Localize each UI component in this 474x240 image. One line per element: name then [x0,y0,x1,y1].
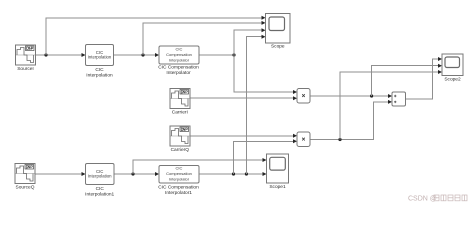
wire SourceQ to CIC Interpolation1 [35,173,82,175]
block Product (multiplier, I path) [297,89,310,104]
svg-text:CIC Compensation: CIC Compensation [158,184,199,190]
svg-text:CarrierI: CarrierI [172,110,188,116]
svg-text:CIC: CIC [176,165,183,170]
wire CIC Interpolation to CIC Compensation Interpolator [114,54,156,56]
svg-text:Scope: Scope [271,44,285,50]
wire branch junction x=234 down to Product input 1 [234,55,294,92]
wire branch junction x=233.5 up to Product1 input 2 [234,141,294,174]
node junction on Q wire at x=246.4 [245,172,248,175]
block Add (sum) [392,92,406,106]
wire Product1 output to Add input 2 [310,102,389,140]
wire branch junction x=46 up to Scope input 1 [46,18,262,55]
wire branch junction x=133 up to Scope1 input 1 [133,160,263,174]
wire Add output to Scope2 input 1 [406,59,439,99]
wire branch junction x=234 up to Scope input 3 [234,30,262,55]
block CIC Compensation Interpolator1 [158,165,199,196]
wire CarrierQ to Product1 input 1 [190,135,294,137]
wire CIC Interpolation1 to CIC Compensation Interpolator1 [114,173,156,175]
block Scope (4 inputs) [266,14,291,50]
node junction on Q wire at x=133 [131,172,134,175]
svg-text:CIC: CIC [176,46,183,51]
block Scope1 (2 inputs) [267,154,289,190]
wire branch junction x=340 up to Scope2 input 3 [340,72,439,140]
svg-text:Scope1: Scope1 [269,184,286,190]
node junction on I wire at x=46 [44,53,47,56]
svg-text:Interpolator: Interpolator [166,70,191,76]
svg-text:SourceQ: SourceQ [16,185,35,191]
block CIC Compensation Interpolator [158,46,199,76]
block CIC Interpolation1 [85,164,114,198]
svg-text:Compensation: Compensation [166,52,192,57]
svg-text:Scope2: Scope2 [444,76,461,82]
svg-text:Interpolator: Interpolator [169,176,190,181]
svg-text:Interpolation: Interpolation [88,55,112,60]
block Product1 (multiplier, Q path) [297,132,310,147]
wire branch junction x=143 up to Scope input 2 [143,23,262,55]
wire branch junction x=246.4 up to Scope input 4 [246,37,262,174]
svg-text:Interpolator: Interpolator [169,57,190,62]
node junction on I wire at x=234 [232,53,235,56]
block CarrierI (DSP sine wave source) [170,89,190,116]
wire CarrierI to Product input 2 [190,97,294,99]
svg-text:CIC: CIC [95,67,104,73]
block SourceI (DSP sine wave source) [16,45,36,72]
node junction on Product1 output wire at x=340 [338,138,341,141]
svg-text:CIC Compensation: CIC Compensation [158,65,199,71]
svg-text:Interpolation: Interpolation [88,174,112,179]
svg-text:Interpolation1: Interpolation1 [85,191,114,197]
node junction on Product output wire at x=371.6 [370,94,373,97]
block CIC Interpolation [86,45,114,79]
svg-text:Compensation: Compensation [166,171,192,176]
wire CIC Compensation Interpolator output to junction [199,54,234,56]
svg-text:SourceI: SourceI [17,66,34,72]
svg-text:Interpolator1: Interpolator1 [165,190,192,196]
wire SourceI to CIC Interpolation [36,54,83,56]
svg-text:Interpolation: Interpolation [86,73,113,79]
wire branch junction x=371.6 up to Scope2 input 2 [372,66,439,96]
svg-text:CIC: CIC [96,186,105,192]
block CarrierQ (DSP sine wave source) [170,126,190,153]
svg-text:CarrierQ: CarrierQ [171,147,190,153]
node junction on I wire at x=143 [141,53,144,56]
svg-text:CSDN @: CSDN @ [408,196,437,203]
wire Product output to Add input 1 [310,95,389,97]
node junction on Q wire at x=233.5 [232,172,235,175]
wire CIC Compensation Interpolator1 output to Scope1 input 2 [199,173,263,175]
watermark CSDN [408,195,467,203]
block SourceQ (DSP sine wave source) [15,164,35,191]
block Scope2 (3 inputs) [442,54,463,82]
